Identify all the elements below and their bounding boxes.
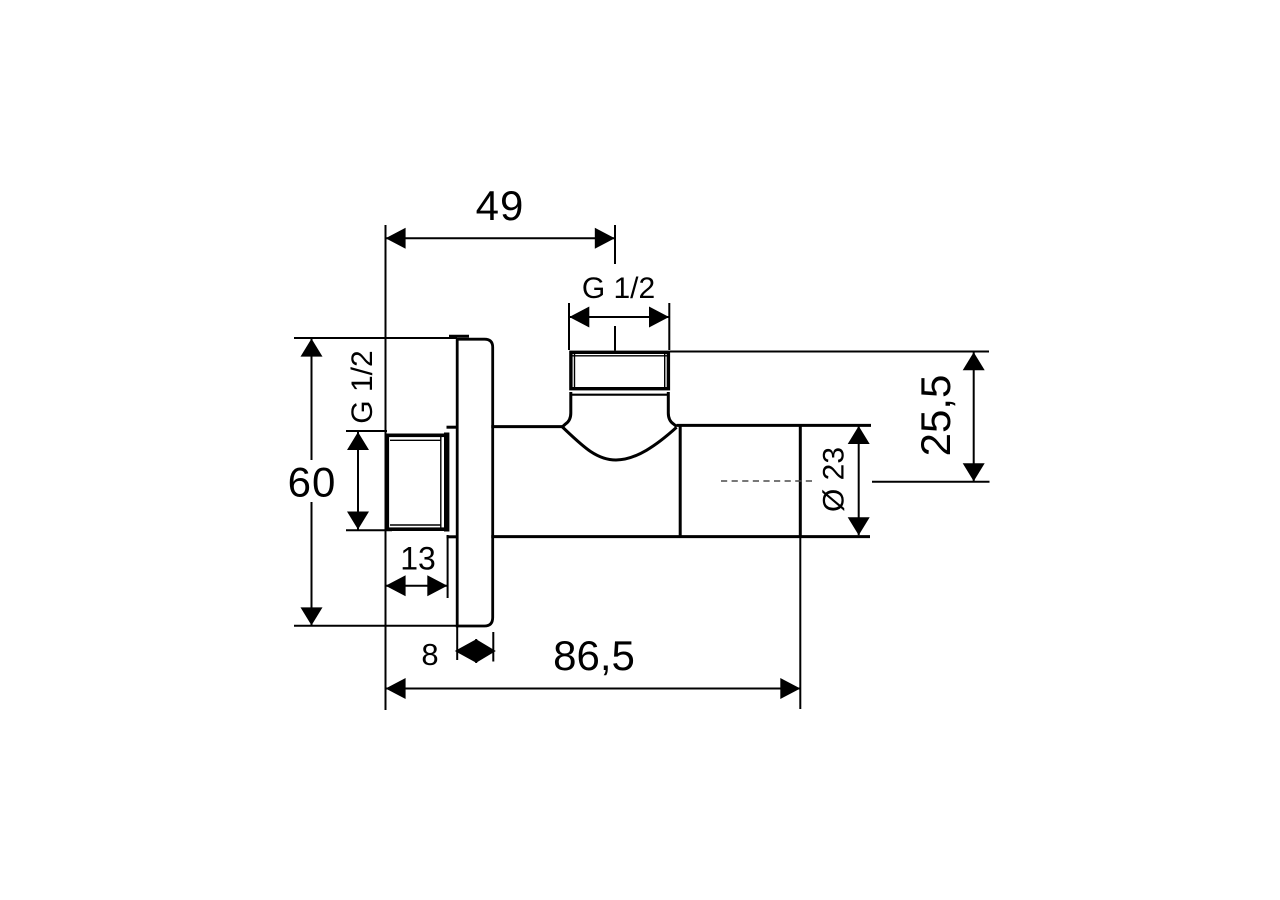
G1/2 top left extension line: [568, 303, 570, 350]
top fitting neck right side: [668, 392, 676, 427]
25,5 down arrow: [963, 463, 985, 481]
dimension 60 bottom extension line: [294, 625, 457, 627]
top fitting inner thread lines: [574, 354, 576, 389]
left G1/2 dimension line: [357, 432, 359, 530]
Ø23 down arrow: [848, 517, 870, 535]
svg-text:60: 60: [288, 459, 337, 506]
left G1/2 up arrow: [347, 432, 369, 450]
25,5 top extension line: [670, 351, 989, 353]
dimension 60 down arrow: [301, 607, 323, 625]
left G1/2 top extension line: [346, 430, 387, 432]
body top edge left segment: [491, 425, 563, 428]
left G1/2 down arrow: [347, 512, 369, 530]
dimension 49 right arrow: [595, 228, 615, 249]
svg-text:49: 49: [476, 182, 525, 229]
dimension 86,5 left arrow: [386, 678, 406, 699]
G1/2 top right extension line: [668, 303, 670, 350]
25,5 up arrow: [963, 352, 985, 370]
dimension 49 line: [386, 237, 616, 239]
dimension 86,5 right extension line: [799, 537, 801, 709]
25,5 dimension line: [973, 352, 975, 481]
dimension 8 left extension line: [456, 626, 458, 660]
G1/2 top dimension line: [569, 316, 669, 318]
top fitting outer body: [571, 352, 669, 388]
dimension 49 left arrow: [386, 228, 406, 249]
dashed centreline in pipe: [721, 480, 812, 482]
svg-text:Ø 23: Ø 23: [818, 447, 851, 512]
dimension 13 right arrow: [427, 575, 447, 596]
Ø23 dimension line: [858, 426, 860, 535]
dimension 8 arrows diamond: [455, 639, 496, 663]
left fitting outer body: [387, 435, 446, 529]
dimension 86,5 right arrow: [780, 678, 800, 699]
svg-text:G 1/2: G 1/2: [346, 350, 379, 423]
dimension 13 line: [386, 585, 448, 587]
body/pipe divider line: [679, 425, 682, 536]
G1/2 top right arrow: [649, 307, 669, 328]
solid centreline extension right: [872, 481, 990, 483]
long left extension line: [385, 225, 387, 710]
svg-text:86,5: 86,5: [553, 632, 635, 679]
top fitting collar lip: [570, 394, 669, 396]
dimension 60 line lower segment: [311, 502, 313, 625]
left fitting end face thick edge: [444, 433, 449, 532]
G1/2 top left arrow: [569, 307, 589, 328]
left shank bottom line: [447, 535, 458, 538]
svg-text:8: 8: [421, 637, 438, 672]
wall flange: [457, 339, 493, 626]
saddle intersection arc: [562, 427, 676, 460]
left G1/2 bottom extension line: [346, 529, 392, 531]
top fitting neck left side: [562, 392, 571, 427]
body/pipe top edge right segment with Ø23 extension: [677, 424, 872, 427]
centre tick of top fitting: [614, 326, 616, 351]
dimension 49 right extension line: [614, 225, 616, 264]
dimension 60 line upper segment: [311, 339, 313, 460]
Ø23 up arrow: [848, 426, 870, 444]
dimension 60 top extension line: [294, 337, 457, 339]
dimension 13 left arrow: [386, 575, 406, 596]
dimension 86,5 line: [386, 688, 801, 690]
dimension 13 right extension line: [447, 535, 449, 598]
svg-text:G 1/2: G 1/2: [582, 272, 655, 305]
pipe right end edge: [799, 425, 802, 536]
svg-text:25,5: 25,5: [912, 375, 959, 457]
dimension 8 centre stroke: [475, 639, 477, 663]
dimension 8 right extension line: [492, 632, 494, 662]
flange top tab: [449, 335, 469, 338]
left fitting inner thread lines: [390, 439, 442, 441]
dimension 60 up arrow: [301, 339, 323, 357]
svg-text:13: 13: [400, 541, 436, 577]
body bottom edge with Ø23 extension: [491, 535, 870, 538]
left shank top line: [447, 426, 458, 429]
